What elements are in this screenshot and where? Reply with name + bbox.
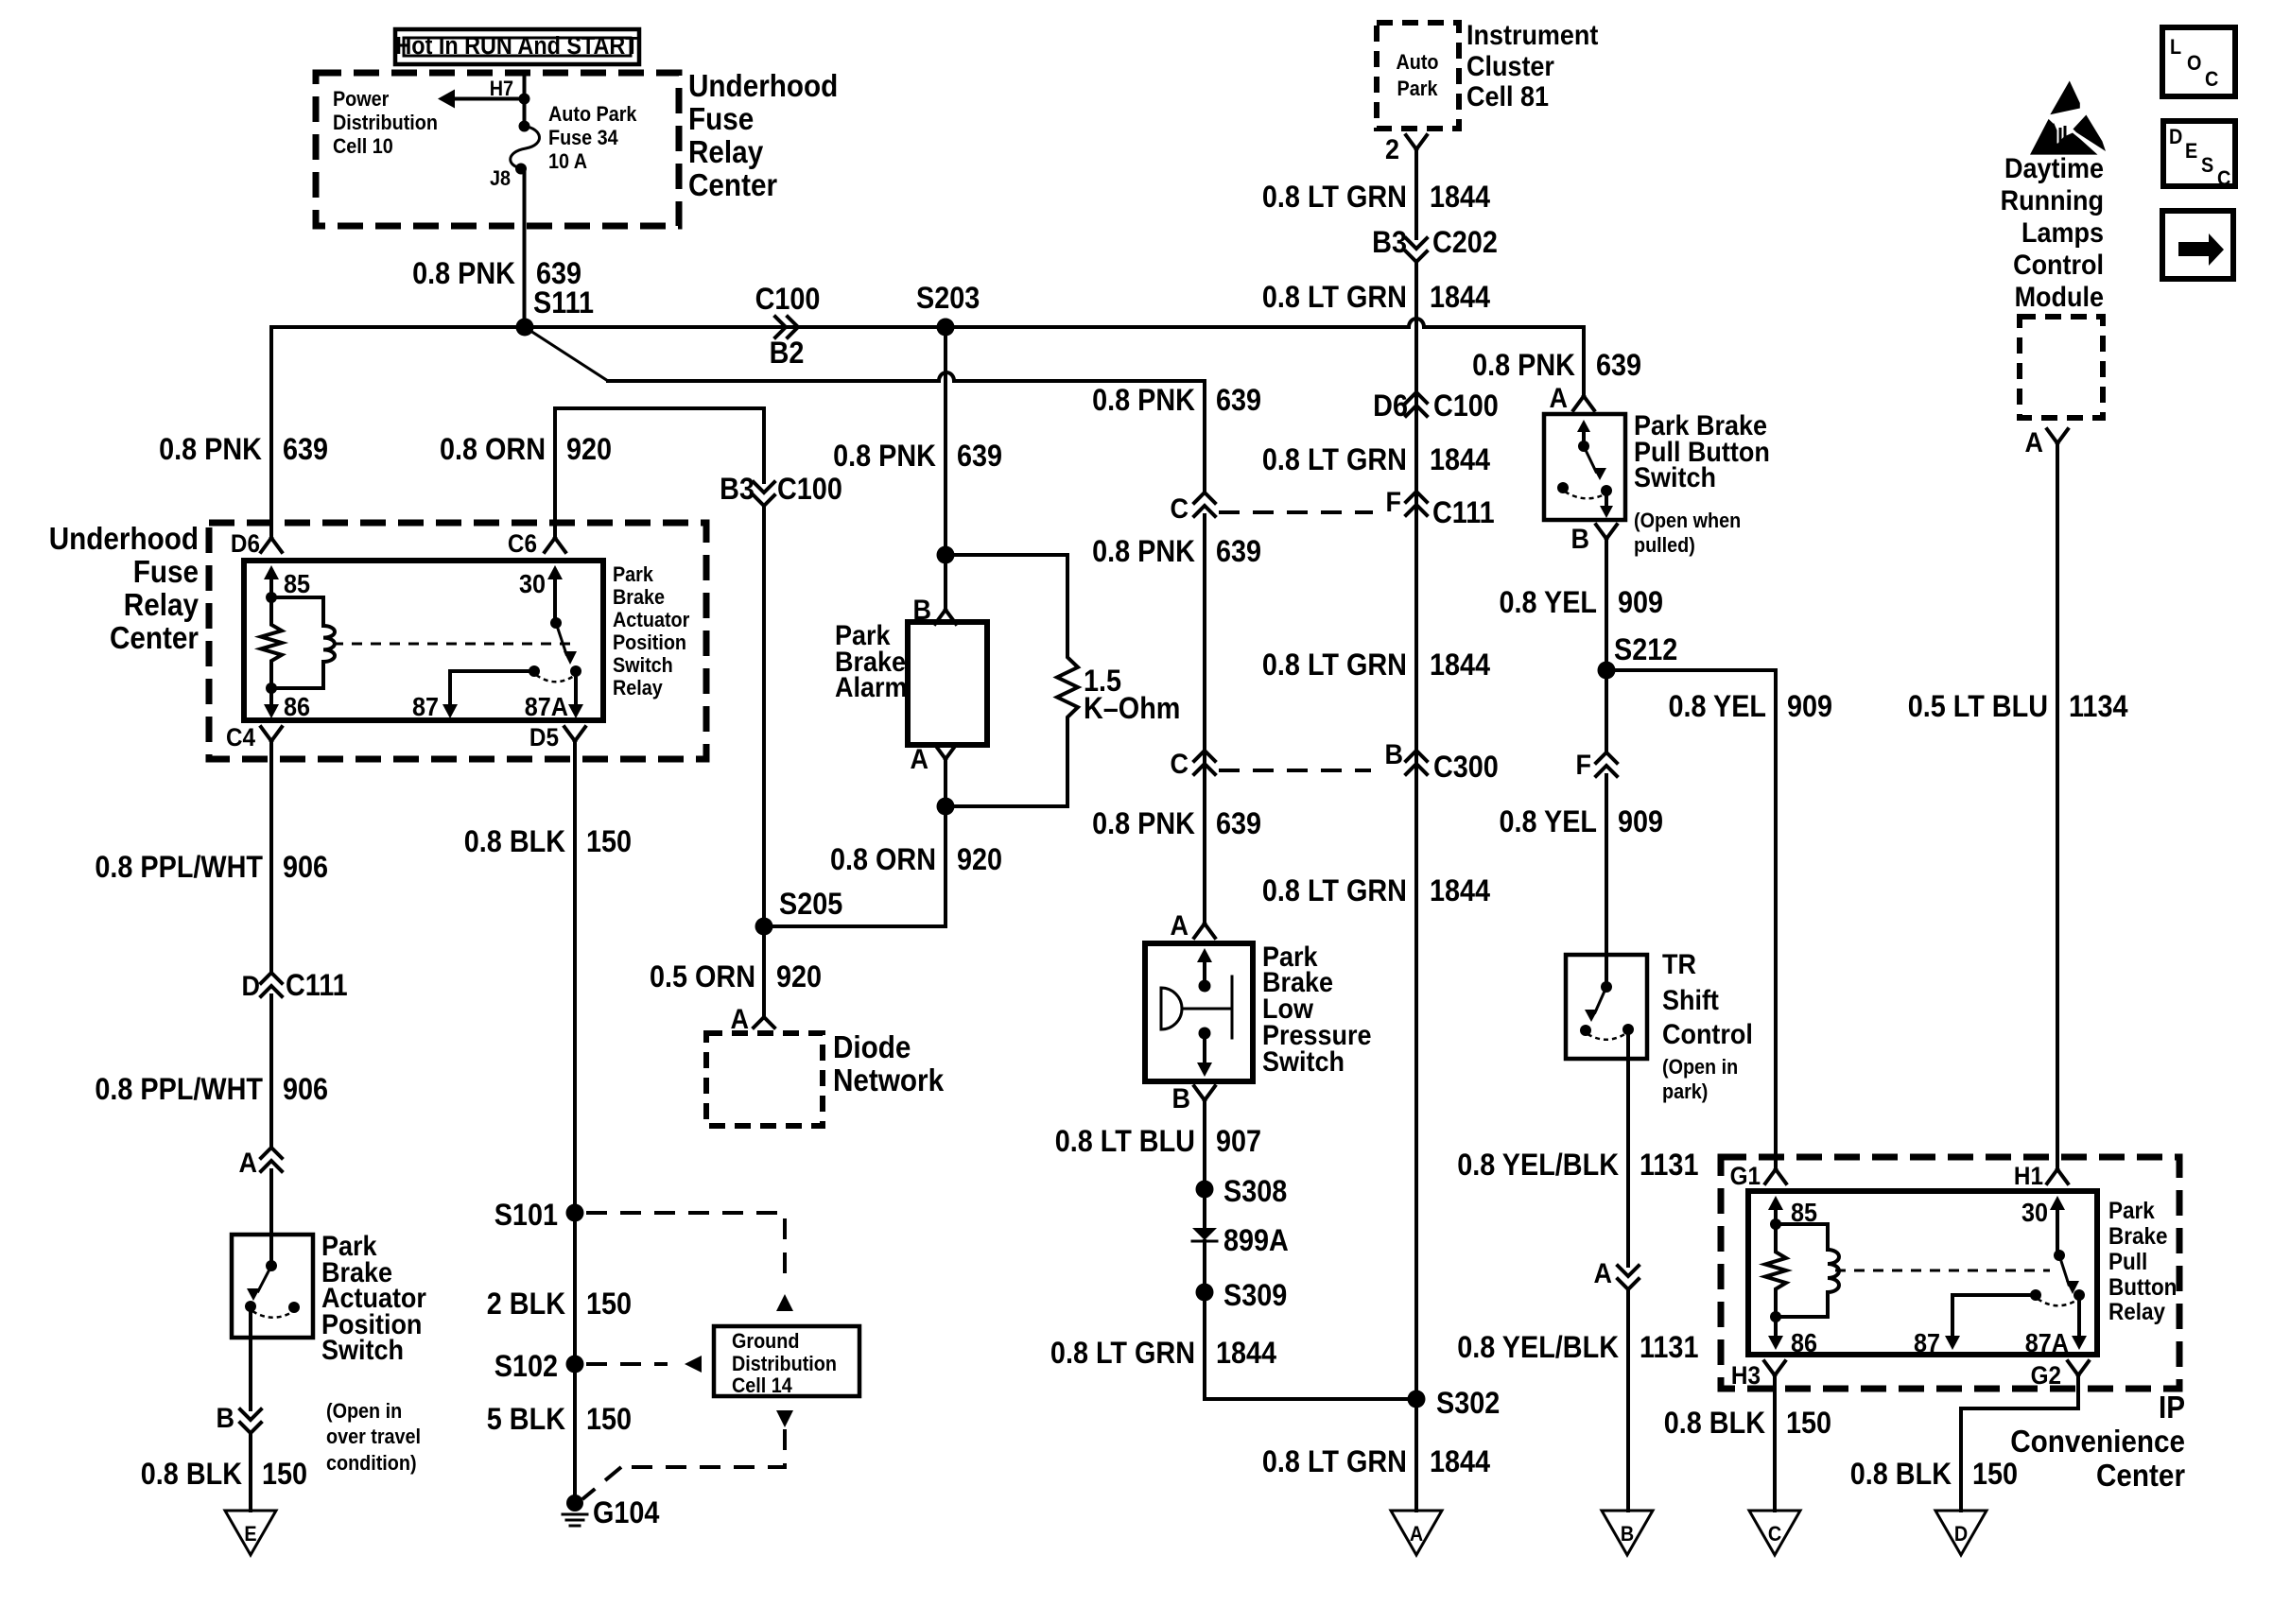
svg-text:A: A — [2025, 427, 2043, 459]
fuse F34 element — [511, 127, 540, 169]
switch body: TR Shift Control — [1566, 955, 1647, 1059]
svg-text:639: 639 — [957, 440, 1002, 474]
svg-text:G104: G104 — [593, 1496, 660, 1530]
svg-text:B: B — [217, 1403, 234, 1435]
wire: S111 diagonal down to B2 run — [525, 327, 608, 381]
svg-text:B: B — [1172, 1083, 1190, 1115]
svg-text:1844: 1844 — [1430, 874, 1490, 908]
wire: C111 D to A connector — [269, 995, 273, 1148]
relay K2 87A drop wire — [2077, 1295, 2081, 1335]
wire: main PNK bus from left corner to S203 — [271, 325, 946, 329]
svg-text:Underhood: Underhood — [688, 69, 838, 104]
svg-text:S308: S308 — [1223, 1175, 1287, 1209]
svg-text:30: 30 — [519, 569, 546, 599]
resistor 1.5 K-Ohm — [1057, 656, 1078, 718]
svg-text:Switch: Switch — [613, 654, 673, 677]
svg-text:87A: 87A — [525, 692, 568, 722]
relay K2 87 branch wire — [1952, 1295, 2036, 1335]
svg-text:150: 150 — [586, 825, 632, 859]
ground reference triangle C — [1749, 1511, 1800, 1555]
relay K2 switch arm — [2059, 1255, 2069, 1285]
svg-text:0.8 LT GRN: 0.8 LT GRN — [1262, 443, 1407, 477]
wire: hop over S203 vertical (B2 run) — [939, 372, 954, 381]
wire: S212 down to F connector — [1605, 670, 1608, 752]
svg-text:Power: Power — [333, 88, 389, 111]
wire: feed from Hot box down to H7 — [523, 73, 527, 98]
legend box DESC — [2163, 121, 2235, 186]
svg-text:0.5 ORN: 0.5 ORN — [650, 960, 755, 994]
pull button switch thrown-arc — [1565, 492, 1605, 498]
svg-text:920: 920 — [566, 433, 612, 467]
splice S205 junction dot — [755, 918, 773, 936]
svg-text:2 BLK: 2 BLK — [487, 1287, 565, 1322]
connector C202 marker (B3 cavity) — [1406, 238, 1427, 262]
wire: B2 run to hop at S203 wire — [608, 379, 939, 383]
svg-text:Position: Position — [613, 631, 686, 654]
svg-text:0.8 LT GRN: 0.8 LT GRN — [1262, 648, 1407, 682]
svg-text:0.8 ORN: 0.8 ORN — [440, 433, 546, 467]
svg-text:0.8 BLK: 0.8 BLK — [464, 825, 565, 859]
relay K1 coil resistor — [261, 597, 282, 688]
svg-text:Network: Network — [833, 1063, 945, 1098]
svg-text:Cell 14: Cell 14 — [732, 1374, 792, 1397]
wire: left PNK drop from bus to D6 — [269, 327, 273, 538]
svg-text:Center: Center — [110, 621, 199, 656]
svg-text:Ground: Ground — [732, 1330, 799, 1353]
legend box LOC — [2162, 27, 2235, 96]
svg-text:Actuator: Actuator — [613, 609, 689, 631]
connector fork: cluster pin 2 — [1406, 135, 1427, 149]
wire: pressure switch B down to S308 — [1203, 1100, 1206, 1189]
connector A marker (actuator switch) — [261, 1148, 282, 1171]
wire: H3 down to triangle C — [1773, 1375, 1777, 1511]
connector D6 fork — [261, 538, 282, 552]
connector C300 marker (C cavity lower) — [1194, 751, 1215, 774]
fuse F34 top terminal — [519, 121, 530, 132]
pressure switch diaphragm symbol — [1161, 988, 1182, 1029]
relay K2 contact 87 dot — [2030, 1289, 2041, 1301]
connector A fork (DRL module) — [2047, 429, 2068, 443]
svg-text:A: A — [239, 1148, 257, 1180]
svg-text:639: 639 — [1596, 349, 1641, 383]
dashed link: S101 to ground distribution — [586, 1213, 785, 1286]
svg-text:(Open in: (Open in — [326, 1400, 402, 1423]
wire: cluster pin 2 down to C202 — [1414, 149, 1418, 238]
relay K2 contact 87A dot — [2073, 1289, 2085, 1301]
ground reference triangle E — [225, 1511, 276, 1555]
pull button switch output pin — [1605, 491, 1608, 507]
actuator switch fixed contact — [288, 1302, 300, 1313]
connector C111 marker (C cavity upper) — [1194, 492, 1215, 516]
svg-text:920: 920 — [776, 960, 822, 994]
svg-text:909: 909 — [1787, 690, 1832, 724]
relay K1 switch pivot — [550, 617, 562, 629]
relay K2 thrown-arc — [2038, 1299, 2077, 1305]
pull button switch top pin — [1582, 431, 1586, 446]
connector B fork (pressure switch) — [1194, 1086, 1215, 1100]
svg-text:0.8 LT GRN: 0.8 LT GRN — [1050, 1337, 1195, 1371]
svg-text:87: 87 — [1914, 1328, 1940, 1358]
svg-text:150: 150 — [586, 1403, 632, 1437]
node H7 junction — [519, 94, 530, 105]
relay K2 coil resistor — [1765, 1224, 1786, 1317]
svg-text:Park: Park — [1397, 78, 1438, 100]
splice S212 dot — [1598, 662, 1616, 680]
svg-text:639: 639 — [1216, 807, 1261, 841]
svg-text:D6: D6 — [231, 530, 260, 558]
connector B marker (actuator switch) — [240, 1409, 261, 1433]
actuator switch arm — [258, 1266, 271, 1291]
svg-text:639: 639 — [1216, 384, 1261, 418]
wire: C4 down to D connector — [269, 741, 273, 973]
splice S203 junction dot — [937, 319, 955, 337]
svg-text:Convenience: Convenience — [2010, 1425, 2185, 1460]
wire: bottom branch down then left to S205 — [764, 806, 946, 926]
connector C100 marker on main bus — [775, 317, 798, 337]
pressure switch bottom pin — [1203, 1033, 1206, 1064]
svg-text:0.8 LT GRN: 0.8 LT GRN — [1262, 181, 1407, 215]
svg-text:1844: 1844 — [1430, 281, 1490, 315]
splice S101 dot — [566, 1204, 584, 1222]
TR switch moving contact — [1580, 1025, 1591, 1036]
svg-text:1844: 1844 — [1430, 648, 1490, 682]
svg-text:0.8 YEL: 0.8 YEL — [1499, 805, 1597, 839]
svg-text:150: 150 — [262, 1458, 307, 1492]
relay K1 coil node 86 — [266, 682, 277, 694]
svg-text:E: E — [244, 1523, 256, 1546]
svg-text:A: A — [1594, 1258, 1612, 1290]
splice S302 dot — [1408, 1391, 1426, 1408]
wire: S102 to G104 — [573, 1364, 577, 1503]
svg-text:0.8 PPL/WHT: 0.8 PPL/WHT — [95, 1073, 263, 1107]
svg-text:Instrument: Instrument — [1466, 20, 1599, 52]
svg-text:1131: 1131 — [1640, 1149, 1699, 1183]
svg-text:Park: Park — [2108, 1198, 2155, 1224]
switch body: Park Brake Pull Button Switch — [1544, 414, 1625, 520]
svg-text:1844: 1844 — [1216, 1337, 1276, 1371]
dashed link C111 — [1219, 510, 1373, 514]
svg-text:A: A — [1171, 910, 1189, 942]
switch body: Park Brake Actuator Position Switch — [232, 1235, 313, 1338]
svg-text:Fuse: Fuse — [133, 555, 199, 590]
junction dot: alarm/resistor top branch — [937, 546, 955, 564]
svg-text:899A: 899A — [1223, 1224, 1289, 1258]
relay K1 contact 87 dot — [529, 665, 540, 677]
svg-text:0.8 PNK: 0.8 PNK — [1092, 807, 1195, 841]
svg-text:5 BLK: 5 BLK — [487, 1403, 565, 1437]
wire: TR output down to A connector — [1626, 1029, 1630, 1266]
dashed box: Underhood Fuse Relay Center (top) — [316, 73, 679, 226]
svg-text:0.5 LT BLU: 0.5 LT BLU — [1908, 690, 2048, 724]
svg-text:86: 86 — [284, 692, 310, 722]
svg-text:Relay: Relay — [688, 135, 764, 170]
svg-text:(Open in: (Open in — [1662, 1056, 1738, 1079]
wire: S308 to diode 899A — [1203, 1189, 1206, 1229]
connector F marker (TR feed) — [1596, 752, 1617, 776]
svg-text:over travel: over travel — [326, 1425, 421, 1448]
svg-text:Cell 10: Cell 10 — [333, 135, 393, 158]
wire: actuator switch to B connector — [249, 1306, 252, 1409]
svg-text:Brake: Brake — [613, 586, 665, 609]
svg-text:1844: 1844 — [1430, 1445, 1490, 1479]
pull button switch moving contact — [1601, 485, 1612, 496]
connector C100 marker (B3 cavity) — [754, 482, 774, 506]
svg-text:C100: C100 — [755, 283, 821, 317]
connector B fork (alarm) — [935, 610, 956, 624]
svg-text:87A: 87A — [2025, 1328, 2069, 1358]
svg-text:639: 639 — [1216, 535, 1261, 569]
svg-text:Cluster: Cluster — [1466, 51, 1554, 83]
svg-text:Center: Center — [688, 168, 777, 203]
wire: B connector to ground triangle E — [249, 1433, 252, 1511]
svg-text:Relay: Relay — [124, 588, 200, 623]
wire: alarm A to bottom branch — [944, 759, 947, 806]
svg-text:D: D — [1954, 1523, 1968, 1546]
svg-text:S: S — [2201, 154, 2213, 177]
svg-text:C4: C4 — [226, 724, 256, 752]
svg-text:0.8 ORN: 0.8 ORN — [830, 843, 936, 877]
connector G1 fork — [1765, 1169, 1786, 1183]
splice S308 dot — [1196, 1181, 1214, 1199]
svg-text:150: 150 — [1972, 1458, 2018, 1492]
connector C4 fork — [261, 727, 282, 741]
connector A marker (diode network) — [754, 1017, 774, 1028]
svg-text:0.8 PNK: 0.8 PNK — [412, 257, 515, 291]
connector H3 fork — [1764, 1361, 1785, 1375]
legend box arrow — [2162, 211, 2233, 279]
svg-text:IP: IP — [2159, 1391, 2185, 1425]
ground G104 symbol — [563, 1513, 587, 1516]
ground reference triangle D — [1935, 1511, 1987, 1555]
svg-text:Underhood: Underhood — [49, 522, 199, 557]
svg-text:S302: S302 — [1436, 1387, 1500, 1421]
svg-text:H1: H1 — [2014, 1163, 2043, 1190]
svg-text:1131: 1131 — [1640, 1331, 1699, 1365]
svg-text:0.8 LT GRN: 0.8 LT GRN — [1262, 281, 1407, 315]
svg-text:1134: 1134 — [2069, 690, 2128, 724]
wire: S203 down to alarm branch — [944, 327, 947, 610]
connector A fork (pressure switch) — [1194, 924, 1215, 938]
svg-text:pulled): pulled) — [1634, 534, 1695, 557]
svg-text:0.8 PNK: 0.8 PNK — [1092, 535, 1195, 569]
svg-text:Switch: Switch — [1262, 1046, 1345, 1079]
wire: S309 down and right to S302 — [1205, 1292, 1416, 1399]
svg-text:C300: C300 — [1433, 751, 1499, 785]
svg-text:D6: D6 — [1373, 389, 1408, 423]
svg-text:0.8 PNK: 0.8 PNK — [1092, 384, 1195, 418]
wire: S101 to S102 — [573, 1213, 577, 1364]
svg-text:0.8 LT GRN: 0.8 LT GRN — [1262, 1445, 1407, 1479]
svg-text:L: L — [2170, 36, 2181, 59]
svg-text:1844: 1844 — [1430, 181, 1490, 215]
svg-text:Hot In RUN And START: Hot In RUN And START — [395, 33, 638, 60]
svg-text:C: C — [1171, 749, 1189, 781]
svg-text:S101: S101 — [495, 1199, 558, 1233]
svg-text:10 A: 10 A — [548, 150, 587, 173]
svg-text:Relay: Relay — [2108, 1299, 2166, 1325]
TR switch thrown-arc — [1588, 1033, 1626, 1040]
relay K2 switch pivot — [2054, 1250, 2065, 1261]
svg-text:C: C — [2217, 167, 2230, 190]
relay K2 pin 86 arrow — [1774, 1317, 1778, 1335]
splice S102 dot — [566, 1356, 584, 1373]
ground reference triangle B — [1602, 1511, 1653, 1555]
svg-text:87: 87 — [412, 692, 439, 722]
wire: C202 down across bus hop to S302 — [1414, 262, 1418, 1399]
connector C111 marker (F cavity) — [1406, 492, 1427, 515]
svg-text:2: 2 — [1385, 134, 1399, 166]
svg-text:0.8 PNK: 0.8 PNK — [833, 440, 936, 474]
dashed box: Underhood Fuse Relay Center (relay) — [209, 523, 706, 759]
wire: S302 down to triangle A — [1414, 1399, 1418, 1511]
svg-text:920: 920 — [957, 843, 1002, 877]
relay K1 87A drop wire — [574, 671, 578, 705]
svg-text:G2: G2 — [2031, 1362, 2061, 1390]
relay K1 pin 30 arrow — [553, 579, 557, 619]
wire: A connector down to triangle B — [1626, 1289, 1630, 1511]
diode 899A — [1192, 1228, 1217, 1240]
svg-text:B2: B2 — [770, 337, 805, 371]
svg-text:A: A — [911, 744, 928, 776]
junction dot: alarm/resistor bottom branch — [937, 798, 955, 816]
svg-text:Alarm: Alarm — [835, 672, 907, 704]
wire: D5 down to S101 — [573, 741, 577, 1213]
wire: main PNK bus S203 to hop — [946, 325, 1409, 329]
svg-text:park): park) — [1662, 1080, 1708, 1103]
wire: G2 jog down to triangle D — [1961, 1375, 2078, 1511]
wire: main PNK bus hop to right corner then down to switch A — [1424, 327, 1584, 396]
pull button switch fixed contact — [1557, 482, 1569, 493]
svg-text:C: C — [1171, 493, 1189, 526]
svg-text:0.8 YEL/BLK: 0.8 YEL/BLK — [1457, 1331, 1619, 1365]
svg-text:0.8 LT BLU: 0.8 LT BLU — [1055, 1125, 1195, 1159]
svg-text:B3: B3 — [720, 473, 755, 507]
svg-text:0.8 BLK: 0.8 BLK — [1850, 1458, 1952, 1492]
svg-text:0.8 PNK: 0.8 PNK — [159, 433, 262, 467]
svg-text:J8: J8 — [490, 167, 511, 190]
wire: diode to S309 — [1203, 1241, 1206, 1292]
relay K2 actuation dashed link — [1835, 1270, 2050, 1272]
splice S309 dot — [1196, 1284, 1214, 1302]
wire: F connector down to TR switch — [1605, 775, 1608, 987]
svg-text:0.8 PPL/WHT: 0.8 PPL/WHT — [95, 851, 263, 885]
reference box: Ground Distribution Cell 14 — [714, 1326, 859, 1396]
switch body: Park Brake Low Pressure Switch — [1145, 943, 1253, 1081]
svg-text:C111: C111 — [286, 969, 348, 1003]
svg-text:0.8 YEL: 0.8 YEL — [1499, 586, 1597, 620]
wire: A connector into actuator switch — [269, 1170, 273, 1266]
svg-text:Switch: Switch — [1634, 462, 1716, 494]
svg-text:Auto: Auto — [1396, 51, 1438, 74]
wire: H7 arrow to Power Distribution — [454, 97, 525, 101]
connector C6 fork — [545, 538, 565, 552]
svg-text:condition): condition) — [326, 1452, 417, 1475]
svg-text:1844: 1844 — [1430, 443, 1490, 477]
svg-text:Auto Park: Auto Park — [548, 103, 637, 126]
connector C100 marker (D6 cavity) — [1406, 392, 1427, 416]
splice S111 junction dot — [516, 319, 534, 337]
svg-text:F: F — [1386, 487, 1401, 519]
actuator switch moving contact — [245, 1301, 256, 1312]
svg-text:0.8 BLK: 0.8 BLK — [141, 1458, 242, 1492]
svg-text:B: B — [1385, 739, 1403, 771]
dashed link C300 — [1219, 769, 1371, 772]
svg-text:B3: B3 — [1372, 226, 1407, 260]
svg-text:639: 639 — [283, 433, 328, 467]
relay K1 pin 85 arrow — [269, 579, 273, 597]
svg-text:S205: S205 — [779, 888, 842, 922]
svg-text:0.8 LT GRN: 0.8 LT GRN — [1262, 874, 1407, 908]
connector B fork (pull button switch) — [1596, 525, 1617, 539]
svg-text:0.8 PNK: 0.8 PNK — [1472, 349, 1575, 383]
svg-text:C100: C100 — [777, 473, 842, 507]
svg-text:TR: TR — [1662, 949, 1696, 981]
svg-text:909: 909 — [1618, 586, 1663, 620]
relay K2 coil node 86 — [1770, 1311, 1781, 1322]
connector A marker (TR output) — [1618, 1266, 1639, 1289]
svg-text:0.8 YEL: 0.8 YEL — [1668, 690, 1766, 724]
relay K1 body: Park Brake Actuator Position Switch Relay — [244, 561, 603, 720]
svg-text:Center: Center — [2096, 1459, 2185, 1494]
svg-text:909: 909 — [1618, 805, 1663, 839]
pressure switch bottom contact dot — [1199, 1028, 1211, 1040]
svg-text:E: E — [2185, 140, 2197, 163]
svg-text:907: 907 — [1216, 1125, 1261, 1159]
svg-text:(Open when: (Open when — [1634, 510, 1741, 532]
svg-text:Switch: Switch — [321, 1335, 404, 1367]
svg-text:S102: S102 — [495, 1350, 558, 1384]
svg-text:Button: Button — [2108, 1274, 2177, 1301]
wire: pull button B down to S212 — [1605, 539, 1608, 670]
wire: B3 down to S205 — [762, 506, 766, 926]
pressure switch top contact dot — [1199, 980, 1211, 993]
svg-text:Pull: Pull — [2108, 1249, 2147, 1275]
svg-text:Brake: Brake — [2108, 1223, 2168, 1250]
svg-text:D5: D5 — [529, 724, 559, 752]
svg-text:A: A — [1550, 383, 1568, 415]
svg-text:150: 150 — [586, 1287, 632, 1322]
ground reference triangle A — [1391, 1511, 1442, 1555]
connector C111 marker (D cavity) — [261, 973, 282, 996]
relay K1 thrown-arc — [536, 675, 574, 682]
svg-text:Running: Running — [2001, 185, 2104, 217]
svg-text:85: 85 — [284, 569, 310, 599]
svg-text:C111: C111 — [1432, 496, 1495, 530]
TR switch top contact — [1601, 981, 1612, 993]
svg-text:B: B — [1571, 524, 1589, 556]
relay K1 contact 87A dot — [570, 665, 581, 677]
wire: S205 to diode network A — [762, 926, 766, 1017]
connector A fork (alarm) — [935, 745, 956, 759]
relay K1 coil node 85 — [266, 592, 277, 603]
wire: DRL module A down to H1 — [2056, 443, 2059, 1169]
relay K2 coil — [1776, 1222, 1828, 1226]
svg-text:C6: C6 — [508, 530, 537, 558]
pull button switch arm — [1584, 446, 1596, 472]
svg-text:G1: G1 — [1730, 1163, 1761, 1190]
svg-text:Daytime: Daytime — [2004, 153, 2104, 185]
actuator switch top contact — [266, 1260, 277, 1271]
wire: fuse J8 down to S111 — [523, 169, 527, 327]
svg-text:B: B — [1621, 1523, 1634, 1546]
wire: top branch to resistor — [946, 555, 1067, 656]
svg-text:S111: S111 — [533, 286, 594, 320]
dashed link: ground distribution to G104 — [776, 1410, 793, 1427]
pull button switch top contact — [1578, 441, 1589, 452]
svg-text:150: 150 — [1786, 1407, 1831, 1441]
relay K2 body: Park Brake Pull Button Relay — [1748, 1191, 2097, 1355]
svg-text:Lamps: Lamps — [2021, 217, 2104, 250]
